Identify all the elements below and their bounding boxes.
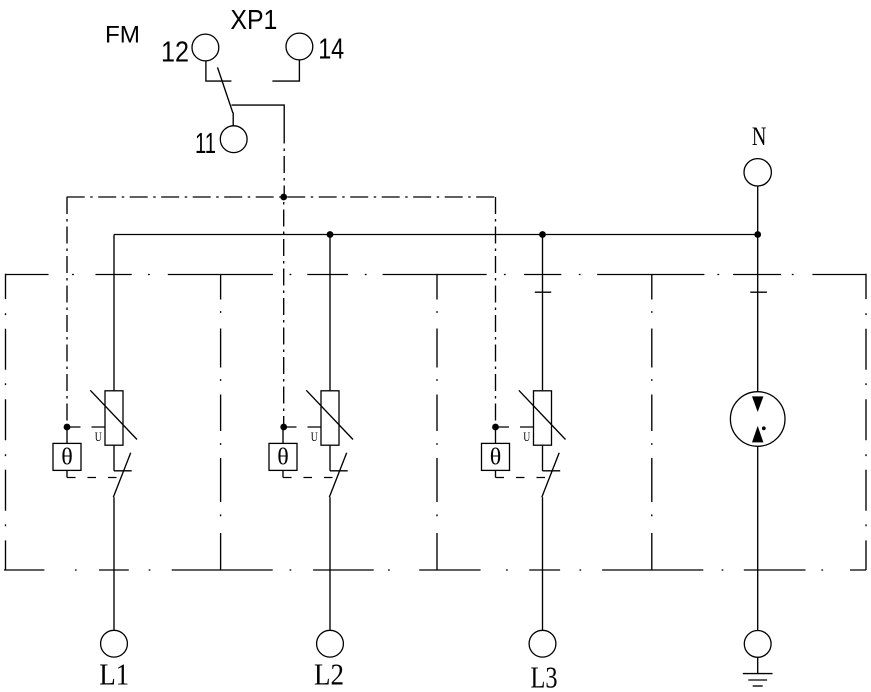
terminal N	[744, 159, 771, 186]
svg-text:14: 14	[318, 34, 344, 66]
varistor RV3 lower lead	[542, 445, 544, 471]
junction dot bus/L2	[327, 231, 334, 238]
GDT gas-filled dot	[762, 426, 766, 430]
varistor RV1 strike	[90, 390, 137, 439]
phase L2 wire upper	[329, 235, 331, 392]
svg-text:L2: L2	[314, 657, 344, 692]
phase bus wire	[114, 234, 758, 236]
varistor RV2 lower lead	[329, 445, 331, 471]
phase L1 wire lower	[113, 497, 115, 630]
monitor drop module 3 (dash-dot)	[495, 197, 497, 427]
junction dot switch/monitor	[280, 194, 287, 201]
phase L3 wire lower	[542, 497, 544, 630]
wire theta to linkage module 1	[66, 470, 68, 477]
ground terminal	[744, 631, 771, 658]
svg-text:11: 11	[195, 128, 216, 160]
wire N down	[757, 186, 759, 392]
phase L2 wire lower	[329, 497, 331, 630]
monitoring bus (dash-dot)	[67, 196, 496, 198]
svg-text:XP1: XP1	[230, 4, 277, 35]
module separator 1/2 (dash-dot)	[220, 275, 222, 571]
svg-text:12: 12	[161, 37, 189, 69]
monitor drop module 1 (dash-dot)	[66, 197, 68, 427]
wire theta to linkage module 3	[495, 470, 497, 477]
disconnect fixed contact module 3	[543, 470, 561, 472]
svg-text:U: U	[311, 429, 318, 444]
wire pin 14 lead	[272, 60, 299, 81]
thermal link lower module 2 (dashed)	[283, 477, 336, 479]
enclosure border left (dash-dot)	[5, 274, 7, 570]
wire dot to theta box module 3	[495, 427, 497, 443]
phase L3 wire upper	[542, 235, 544, 392]
varistor RV2 body	[321, 391, 339, 445]
XP1 pin 12 terminal	[192, 34, 219, 61]
junction dot bus/L3	[539, 231, 546, 238]
terminal L2	[317, 630, 344, 657]
thermal sensor box module 1	[53, 443, 81, 470]
thermal sensor box module 3	[482, 443, 510, 470]
monitor drop module 2 (dash-dot)	[283, 197, 285, 427]
svg-text:U: U	[523, 429, 530, 444]
terminal L3	[529, 630, 556, 657]
earth ground symbol	[743, 674, 773, 686]
thermal link lower module 1 (dashed)	[67, 477, 120, 479]
enclosure border bottom (dash-dot)	[4, 569, 866, 571]
svg-text:θ: θ	[277, 445, 289, 471]
svg-text:N: N	[752, 122, 767, 151]
thermal link lower module 3 (dashed)	[496, 477, 549, 479]
svg-text:θ: θ	[490, 445, 502, 471]
disconnect blade module 2	[329, 453, 346, 497]
svg-text:FM: FM	[105, 22, 140, 49]
disconnect blade module 3	[542, 453, 559, 497]
thermal sensor box module 2	[269, 443, 297, 470]
GDT electrode bottom	[752, 426, 763, 443]
module separator 3/4 (dash-dot)	[651, 275, 653, 571]
thermal link upper module 2 (dashed)	[283, 426, 321, 428]
varistor RV3 strike	[519, 390, 566, 439]
svg-text:L1: L1	[99, 657, 129, 692]
varistor RV1 lower lead	[113, 445, 115, 471]
svg-text:θ: θ	[61, 445, 73, 471]
junction dot thermal/monitor module 3	[492, 424, 499, 431]
wire terminal to earth	[757, 657, 759, 673]
thermal link upper module 1 (dashed)	[67, 426, 105, 428]
svg-text:L3: L3	[531, 660, 558, 692]
enclosure border top (dash-dot)	[6, 274, 867, 276]
junction dot thermal/monitor module 2	[280, 424, 287, 431]
disconnect tick L3	[535, 291, 551, 293]
varistor RV3 body	[534, 391, 552, 445]
gas discharge tube body	[730, 392, 785, 447]
wire switch output	[232, 105, 285, 126]
disconnect blade module 1	[113, 453, 130, 497]
switch blade	[218, 67, 233, 113]
disconnect fixed contact module 2	[330, 470, 348, 472]
wire pin 12 lead	[206, 61, 232, 81]
wire dot to theta box module 2	[282, 427, 284, 443]
phase L1 wire upper	[113, 235, 115, 392]
svg-text:U: U	[95, 429, 102, 444]
disconnect fixed contact module 1	[114, 470, 132, 472]
wire dot to theta box module 1	[66, 427, 68, 443]
XP1 pin 14 terminal	[286, 33, 313, 60]
wire pin 11 lead	[232, 113, 234, 126]
enclosure border right (dash-dot)	[865, 274, 867, 570]
junction dot bus/N	[754, 231, 761, 238]
varistor RV1 body	[105, 391, 123, 445]
terminal L1	[101, 630, 128, 657]
monitor line from switch (dash-dot)	[283, 127, 285, 198]
wire GDT to ground terminal	[757, 446, 759, 630]
varistor RV2 strike	[306, 390, 353, 439]
disconnect tick N	[750, 291, 767, 293]
GDT electrode top	[752, 396, 763, 412]
XP1 pin 11 terminal	[220, 126, 247, 153]
junction dot thermal/monitor module 1	[64, 424, 71, 431]
wire theta to linkage module 2	[282, 470, 284, 477]
module separator 2/3 (dash-dot)	[436, 275, 438, 571]
thermal link upper module 3 (dashed)	[496, 426, 534, 428]
